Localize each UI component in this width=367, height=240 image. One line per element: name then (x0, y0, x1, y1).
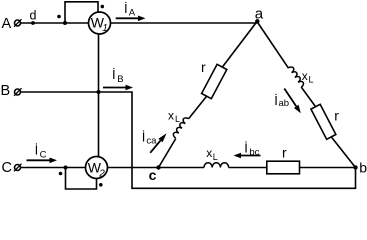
svg-text:r: r (334, 107, 339, 123)
inductor xL on side a-b (288, 66, 304, 88)
resistor r on side c-a (202, 64, 227, 98)
node b (353, 165, 357, 169)
wattmeter W1 voltage-coil loop (65, 2, 98, 23)
label IA (124, 1, 136, 19)
delta side c-a lower wire segment (159, 139, 176, 168)
svg-text:ca: ca (146, 135, 157, 146)
label xL on side c-b (206, 146, 218, 162)
svg-text:d: d (30, 9, 37, 23)
svg-text:A: A (2, 16, 12, 32)
current arrow IA (116, 16, 146, 22)
current arrow IB (103, 85, 133, 91)
label IB (112, 67, 124, 85)
svg-text:r: r (201, 59, 206, 75)
svg-text:x: x (302, 69, 308, 83)
current arrow Iab (284, 89, 301, 114)
delta side a-b bottom wire segment (329, 134, 356, 168)
junction dot on line C (64, 166, 68, 170)
inductor xL on side c-a (172, 116, 188, 138)
delta side c-b right wire segment (229, 167, 356, 169)
resistor r on side c-b (267, 161, 300, 174)
wire line C (21, 167, 159, 169)
junction dot line B (97, 90, 101, 94)
svg-text:L: L (309, 74, 314, 84)
label Iab (274, 93, 289, 109)
node d (31, 21, 35, 25)
resistor r on side a-b (311, 104, 336, 139)
node c (156, 165, 160, 169)
svg-text:x: x (168, 109, 174, 123)
wattmeter W1 (89, 12, 111, 34)
node a (255, 19, 259, 23)
delta side c-a middle wire segment (189, 95, 208, 119)
label Ibc (244, 141, 259, 158)
svg-text:İ: İ (124, 1, 128, 16)
svg-text:B: B (117, 74, 123, 85)
svg-text:İ: İ (244, 141, 248, 156)
svg-text:bc: bc (249, 147, 259, 158)
delta side a-b upper wire segment (257, 22, 289, 69)
current arrow IC (27, 158, 58, 164)
polarity dot W1 top (101, 5, 105, 9)
wire W1 to W2 vertical (98, 23, 100, 168)
svg-text:İ: İ (142, 130, 146, 145)
svg-text:İ: İ (35, 142, 39, 157)
current arrow Ibc (234, 153, 261, 159)
polarity dot W2 bottom (99, 183, 103, 187)
terminal C (14, 164, 22, 172)
svg-text:c: c (149, 167, 157, 183)
label Ica (142, 130, 157, 147)
wire line B with run to node b (21, 92, 356, 188)
inductor xL on side c-b (204, 163, 229, 168)
terminal B (14, 88, 22, 96)
delta side a-b lower wire segment (301, 87, 318, 110)
svg-text:2: 2 (98, 168, 105, 179)
svg-text:L: L (175, 114, 180, 124)
svg-text:L: L (213, 152, 218, 162)
polarity dot W2 left (59, 172, 63, 176)
wire line A (21, 22, 257, 24)
junction dot on line A (63, 21, 67, 25)
label xL on side a-b (302, 69, 314, 85)
svg-text:ab: ab (279, 98, 290, 109)
svg-text:İ: İ (112, 67, 116, 82)
svg-text:a: a (255, 5, 264, 22)
svg-text:A: A (129, 8, 136, 19)
svg-text:C: C (2, 160, 12, 176)
terminal A (14, 19, 22, 27)
label xL on side c-a (168, 109, 180, 124)
current arrow Ica (150, 133, 166, 153)
svg-text:r: r (282, 144, 287, 160)
svg-text:C: C (40, 149, 47, 160)
wattmeter W2 voltage-coil loop (66, 168, 97, 190)
svg-text:x: x (206, 146, 212, 160)
delta side c-b left wire segment (159, 167, 205, 169)
svg-text:B: B (1, 83, 11, 99)
label IC (35, 142, 47, 160)
delta side c-a upper wire segment (221, 22, 258, 70)
svg-text:1: 1 (102, 23, 108, 34)
wattmeter W2 (86, 157, 108, 180)
svg-text:b: b (359, 160, 367, 176)
svg-text:İ: İ (274, 93, 278, 108)
polarity dot W1 left (57, 15, 61, 19)
